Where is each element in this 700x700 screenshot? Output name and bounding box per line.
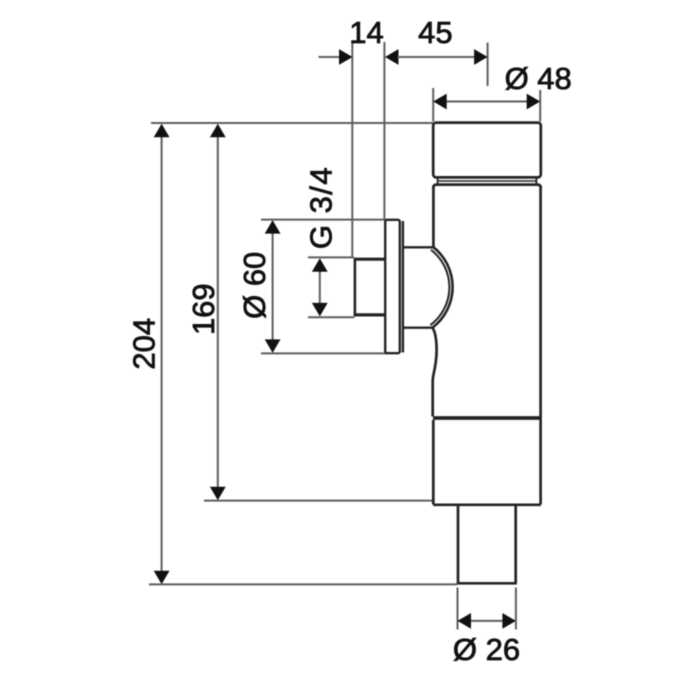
arrow G34 down — [312, 303, 328, 317]
dimension line 169 — [217, 137, 219, 488]
dome outer arc — [433, 247, 453, 327]
dimension line 14 leader — [319, 56, 341, 58]
arrow d26 right-pointing — [502, 613, 516, 629]
valve cap — [433, 123, 541, 178]
svg-text:Ø 26: Ø 26 — [453, 632, 520, 667]
lower-left body contour — [433, 328, 437, 417]
cap ring right stub — [535, 177, 537, 184]
arrow 169 down — [210, 487, 226, 501]
dimension line G34 — [319, 272, 321, 304]
extension line d26-left — [457, 588, 459, 630]
dome inner arc — [430, 250, 449, 325]
arrow 45 left-pointing — [385, 49, 399, 65]
body bottom edge — [433, 503, 541, 506]
wall flange plate — [385, 220, 400, 353]
dimension line d48 — [446, 101, 528, 103]
extension line d60-bottom — [261, 352, 386, 354]
arrow G34 up — [312, 258, 328, 272]
arrow d60 down — [265, 339, 281, 353]
outlet pipe left edge — [457, 506, 460, 583]
button left edge — [354, 258, 357, 317]
svg-text:Ø 48: Ø 48 — [505, 61, 572, 96]
arrow d48 right-pointing — [527, 94, 541, 110]
dimension line d60 — [272, 234, 274, 341]
extension line G34-bottom — [308, 316, 355, 318]
extension line bottom 169 — [204, 500, 433, 502]
cap ring line — [438, 180, 537, 182]
extension line 14-left — [351, 42, 353, 258]
svg-text:Ø 60: Ø 60 — [237, 252, 272, 319]
svg-text:45: 45 — [418, 15, 452, 50]
arrow d48 left-pointing — [433, 94, 447, 110]
cap ring left stub — [437, 177, 439, 184]
extension line bottom 204 — [149, 583, 457, 585]
arrow 45 right-pointing — [474, 49, 488, 65]
extension line d48-left — [432, 88, 434, 122]
arrow 204 up — [154, 124, 170, 138]
arrow 14 right-pointing — [339, 49, 353, 65]
arrow d26 left-pointing — [458, 613, 472, 629]
lower-left body edge — [432, 420, 435, 505]
body left edge upper — [432, 187, 435, 247]
extension line top (204/169) — [151, 122, 433, 124]
extension line d60-top — [261, 219, 386, 221]
svg-text:14: 14 — [349, 15, 383, 50]
outlet pipe right edge — [514, 506, 517, 583]
body right edge — [539, 187, 542, 505]
button top edge — [355, 258, 386, 261]
dimension line d26 — [471, 620, 504, 622]
extension line d48-right — [539, 90, 541, 122]
thick mid separation line — [433, 416, 541, 420]
svg-text:G 3/4: G 3/4 — [304, 166, 339, 249]
arrow d60 up — [265, 220, 281, 234]
flange rear edge line — [402, 221, 404, 353]
neck top line — [403, 246, 433, 248]
extension line G34-top — [308, 256, 354, 258]
arrow 169 up — [210, 124, 226, 138]
dimension line 45 — [398, 56, 476, 58]
body top edge — [433, 185, 541, 188]
neck bottom line — [403, 327, 432, 329]
extension line 14-right / 45-left — [383, 42, 385, 220]
arrow 204 down — [154, 571, 170, 585]
button bottom edge — [355, 313, 386, 316]
outlet pipe bottom edge — [457, 582, 517, 585]
extension line 45-right (center axis) — [487, 43, 489, 87]
svg-text:169: 169 — [186, 283, 221, 335]
dimension line 204 — [161, 137, 163, 572]
svg-text:204: 204 — [127, 318, 162, 370]
extension line d26-right — [515, 588, 517, 630]
